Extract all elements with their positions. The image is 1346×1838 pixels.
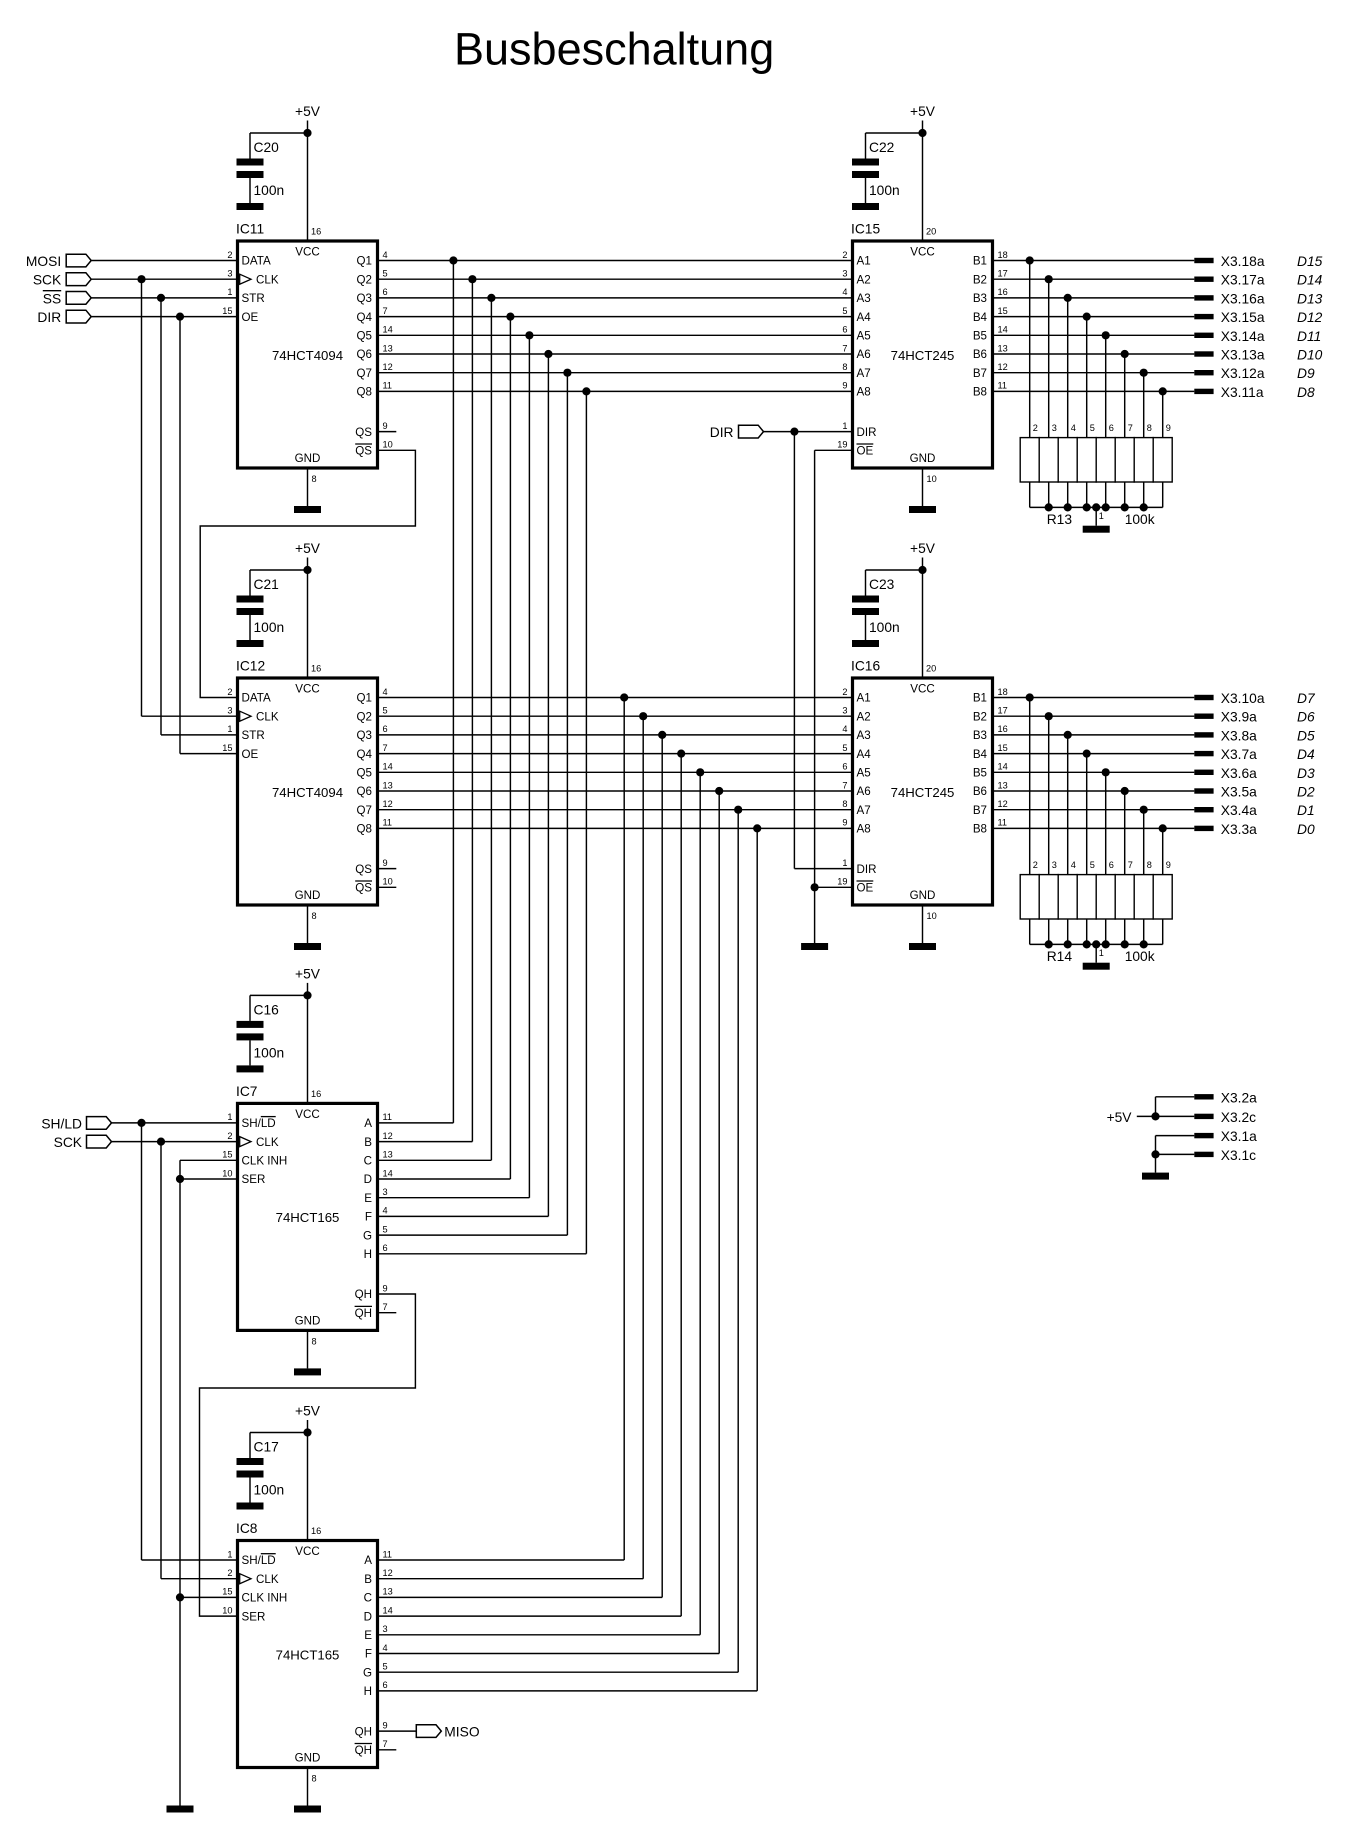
svg-text:11: 11 — [998, 381, 1008, 391]
svg-text:6: 6 — [383, 724, 388, 734]
svg-text:6: 6 — [383, 287, 388, 297]
svg-text:D6: D6 — [1297, 710, 1315, 725]
svg-text:+5V: +5V — [1107, 1110, 1133, 1125]
svg-text:QS: QS — [355, 426, 372, 439]
svg-text:X3.11a: X3.11a — [1221, 385, 1264, 400]
svg-text:X3.2a: X3.2a — [1221, 1090, 1257, 1105]
svg-text:SER: SER — [242, 1610, 266, 1623]
svg-text:Q8: Q8 — [357, 823, 372, 836]
svg-text:Q6: Q6 — [357, 785, 372, 798]
svg-text:B2: B2 — [973, 710, 987, 723]
svg-text:IC7: IC7 — [236, 1084, 257, 1099]
svg-text:QS: QS — [355, 863, 372, 876]
svg-text:1: 1 — [227, 1549, 232, 1559]
svg-text:SCK: SCK — [54, 1135, 83, 1150]
svg-text:Busbeschaltung: Busbeschaltung — [454, 24, 774, 75]
svg-text:B6: B6 — [973, 785, 987, 798]
svg-text:D: D — [364, 1173, 372, 1186]
svg-text:SER: SER — [242, 1173, 266, 1186]
svg-text:1: 1 — [227, 1112, 232, 1122]
svg-text:A7: A7 — [857, 367, 871, 380]
svg-text:F: F — [365, 1648, 372, 1661]
svg-text:OE: OE — [857, 882, 874, 895]
svg-text:8: 8 — [312, 1774, 317, 1784]
svg-text:15: 15 — [222, 743, 232, 753]
svg-text:B1: B1 — [973, 692, 987, 705]
svg-text:D9: D9 — [1297, 366, 1315, 381]
svg-text:D7: D7 — [1297, 691, 1316, 706]
svg-text:20: 20 — [926, 664, 936, 674]
svg-text:1: 1 — [842, 858, 847, 868]
svg-text:100n: 100n — [254, 620, 285, 635]
svg-text:OE: OE — [857, 445, 874, 458]
svg-text:X3.2c: X3.2c — [1221, 1110, 1256, 1125]
svg-text:13: 13 — [998, 780, 1008, 790]
svg-text:2: 2 — [227, 250, 232, 260]
svg-text:A4: A4 — [857, 748, 872, 761]
svg-text:12: 12 — [998, 362, 1008, 372]
svg-text:10: 10 — [927, 911, 937, 921]
svg-text:Q3: Q3 — [357, 292, 372, 305]
svg-text:G: G — [363, 1666, 372, 1679]
svg-text:C17: C17 — [254, 1440, 279, 1455]
svg-text:2: 2 — [227, 1568, 232, 1578]
svg-text:VCC: VCC — [910, 682, 934, 695]
svg-text:DATA: DATA — [242, 692, 271, 705]
svg-text:7: 7 — [842, 343, 847, 353]
svg-text:D4: D4 — [1297, 747, 1315, 762]
svg-text:4: 4 — [383, 1643, 388, 1653]
svg-text:10: 10 — [383, 440, 393, 450]
svg-text:QH: QH — [355, 1288, 372, 1301]
svg-text:X3.13a: X3.13a — [1221, 348, 1265, 363]
svg-text:STR: STR — [242, 729, 265, 742]
svg-text:VCC: VCC — [295, 245, 319, 258]
svg-text:5: 5 — [383, 269, 388, 279]
svg-text:QS: QS — [355, 445, 372, 458]
svg-text:9: 9 — [383, 1283, 388, 1293]
svg-text:X3.5a: X3.5a — [1221, 785, 1257, 800]
svg-text:CLK: CLK — [256, 1573, 279, 1586]
svg-text:D12: D12 — [1297, 310, 1323, 325]
svg-text:DIR: DIR — [857, 426, 877, 439]
svg-text:13: 13 — [383, 780, 393, 790]
svg-text:Q7: Q7 — [357, 367, 372, 380]
svg-text:Q6: Q6 — [357, 348, 372, 361]
svg-text:14: 14 — [998, 762, 1008, 772]
svg-text:Q5: Q5 — [357, 330, 372, 343]
svg-text:9: 9 — [1166, 423, 1171, 433]
svg-text:1: 1 — [227, 287, 232, 297]
svg-text:100k: 100k — [1125, 949, 1155, 964]
svg-text:A5: A5 — [857, 330, 871, 343]
svg-text:B8: B8 — [973, 823, 987, 836]
svg-text:+5V: +5V — [295, 966, 321, 981]
svg-text:3: 3 — [227, 706, 232, 716]
svg-text:E: E — [364, 1192, 372, 1205]
svg-text:A1: A1 — [857, 255, 871, 268]
svg-text:R13: R13 — [1047, 512, 1073, 527]
svg-text:2: 2 — [1033, 423, 1038, 433]
svg-text:A8: A8 — [857, 823, 871, 836]
svg-text:1: 1 — [1099, 948, 1104, 958]
svg-text:Q1: Q1 — [357, 255, 372, 268]
svg-text:15: 15 — [998, 743, 1008, 753]
svg-text:5: 5 — [383, 1224, 388, 1234]
svg-text:OE: OE — [242, 748, 259, 761]
svg-text:X3.1a: X3.1a — [1221, 1129, 1257, 1144]
svg-text:+5V: +5V — [295, 104, 321, 119]
svg-text:B4: B4 — [973, 748, 988, 761]
svg-text:C: C — [364, 1592, 372, 1605]
svg-text:IC15: IC15 — [851, 222, 880, 237]
svg-text:11: 11 — [383, 1549, 393, 1559]
svg-text:B3: B3 — [973, 729, 987, 742]
svg-text:A6: A6 — [857, 785, 871, 798]
svg-text:+5V: +5V — [910, 104, 936, 119]
svg-text:SH/LD: SH/LD — [242, 1554, 276, 1567]
svg-text:A8: A8 — [857, 386, 871, 399]
svg-text:9: 9 — [842, 381, 847, 391]
svg-text:X3.7a: X3.7a — [1221, 747, 1257, 762]
svg-text:20: 20 — [926, 227, 936, 237]
svg-text:CLK INH: CLK INH — [242, 1155, 288, 1168]
svg-text:MOSI: MOSI — [26, 254, 61, 269]
svg-text:DATA: DATA — [242, 255, 271, 268]
svg-text:A3: A3 — [857, 292, 871, 305]
svg-text:8: 8 — [312, 911, 317, 921]
svg-text:STR: STR — [242, 292, 265, 305]
svg-text:100n: 100n — [254, 1483, 285, 1498]
svg-text:6: 6 — [383, 1243, 388, 1253]
svg-text:Q7: Q7 — [357, 804, 372, 817]
svg-text:7: 7 — [383, 1739, 388, 1749]
svg-text:G: G — [363, 1229, 372, 1242]
svg-text:16: 16 — [998, 287, 1008, 297]
svg-text:X3.6a: X3.6a — [1221, 766, 1257, 781]
svg-text:3: 3 — [383, 1187, 388, 1197]
svg-text:2: 2 — [842, 687, 847, 697]
svg-text:1: 1 — [1099, 511, 1104, 521]
svg-text:Q4: Q4 — [357, 748, 373, 761]
svg-text:9: 9 — [383, 1720, 388, 1730]
svg-text:7: 7 — [383, 1302, 388, 1312]
svg-text:12: 12 — [998, 799, 1008, 809]
svg-text:16: 16 — [311, 227, 321, 237]
svg-text:8: 8 — [1147, 423, 1152, 433]
svg-text:18: 18 — [998, 687, 1008, 697]
svg-text:QH: QH — [355, 1307, 372, 1320]
svg-text:3: 3 — [1052, 423, 1057, 433]
svg-text:A5: A5 — [857, 767, 871, 780]
svg-text:11: 11 — [383, 1112, 393, 1122]
svg-text:CLK INH: CLK INH — [242, 1592, 288, 1605]
svg-text:8: 8 — [842, 799, 847, 809]
svg-text:D: D — [364, 1610, 372, 1623]
svg-text:SCK: SCK — [33, 273, 62, 288]
svg-text:D11: D11 — [1297, 329, 1321, 344]
svg-text:E: E — [364, 1629, 372, 1642]
svg-text:100n: 100n — [254, 1045, 285, 1060]
svg-text:+5V: +5V — [295, 1404, 321, 1419]
svg-text:B1: B1 — [973, 255, 987, 268]
svg-text:8: 8 — [312, 474, 317, 484]
svg-text:19: 19 — [837, 440, 847, 450]
svg-text:B5: B5 — [973, 330, 987, 343]
svg-text:VCC: VCC — [295, 1108, 319, 1121]
svg-text:100n: 100n — [254, 183, 285, 198]
svg-text:C22: C22 — [869, 140, 894, 155]
svg-text:Q8: Q8 — [357, 386, 372, 399]
svg-text:VCC: VCC — [295, 1545, 319, 1558]
svg-text:D10: D10 — [1297, 348, 1323, 363]
svg-text:8: 8 — [1147, 860, 1152, 870]
svg-text:74HCT165: 74HCT165 — [276, 1647, 340, 1662]
svg-text:B5: B5 — [973, 767, 987, 780]
svg-text:Q4: Q4 — [357, 311, 373, 324]
svg-text:VCC: VCC — [295, 682, 319, 695]
svg-text:10: 10 — [222, 1168, 232, 1178]
svg-text:7: 7 — [842, 780, 847, 790]
svg-text:X3.9a: X3.9a — [1221, 710, 1257, 725]
svg-text:3: 3 — [842, 706, 847, 716]
svg-text:5: 5 — [383, 1662, 388, 1672]
svg-text:16: 16 — [311, 1526, 321, 1536]
svg-text:100n: 100n — [869, 620, 900, 635]
svg-text:DIR: DIR — [37, 310, 61, 325]
svg-text:15: 15 — [222, 1587, 232, 1597]
svg-text:7: 7 — [1128, 860, 1133, 870]
svg-text:16: 16 — [311, 1089, 321, 1099]
svg-text:1: 1 — [227, 724, 232, 734]
svg-text:B: B — [364, 1136, 372, 1149]
svg-text:9: 9 — [1166, 860, 1171, 870]
svg-text:Q1: Q1 — [357, 692, 372, 705]
svg-text:5: 5 — [842, 743, 847, 753]
svg-text:GND: GND — [295, 1314, 321, 1327]
svg-text:X3.16a: X3.16a — [1221, 291, 1265, 306]
svg-text:Q2: Q2 — [357, 273, 372, 286]
svg-text:6: 6 — [1109, 860, 1114, 870]
svg-text:7: 7 — [1128, 423, 1133, 433]
svg-text:IC11: IC11 — [236, 222, 264, 237]
svg-text:X3.14a: X3.14a — [1221, 329, 1265, 344]
svg-text:A6: A6 — [857, 348, 871, 361]
svg-text:5: 5 — [842, 306, 847, 316]
svg-text:2: 2 — [842, 250, 847, 260]
svg-text:12: 12 — [383, 1131, 393, 1141]
svg-text:14: 14 — [998, 325, 1008, 335]
svg-text:MISO: MISO — [444, 1725, 480, 1740]
svg-text:Q5: Q5 — [357, 767, 372, 780]
svg-text:9: 9 — [383, 858, 388, 868]
svg-text:4: 4 — [842, 287, 847, 297]
svg-text:D1: D1 — [1297, 803, 1315, 818]
svg-text:8: 8 — [312, 1336, 317, 1346]
svg-text:QH: QH — [355, 1744, 372, 1757]
svg-text:1: 1 — [842, 421, 847, 431]
svg-text:14: 14 — [383, 1605, 393, 1615]
svg-text:C: C — [364, 1155, 372, 1168]
svg-text:CLK: CLK — [256, 710, 279, 723]
svg-text:F: F — [365, 1211, 372, 1224]
svg-text:CLK: CLK — [256, 273, 279, 286]
svg-text:DIR: DIR — [857, 863, 877, 876]
svg-text:+5V: +5V — [910, 541, 936, 556]
svg-text:C23: C23 — [869, 577, 895, 592]
svg-text:5: 5 — [1090, 860, 1095, 870]
svg-text:A3: A3 — [857, 729, 871, 742]
svg-text:GND: GND — [295, 889, 321, 902]
svg-text:X3.12a: X3.12a — [1221, 366, 1265, 381]
svg-text:B4: B4 — [973, 311, 988, 324]
svg-text:3: 3 — [1052, 860, 1057, 870]
svg-text:74HCT4094: 74HCT4094 — [272, 785, 343, 800]
svg-text:Q2: Q2 — [357, 710, 372, 723]
svg-text:11: 11 — [998, 818, 1008, 828]
svg-text:X3.15a: X3.15a — [1221, 310, 1265, 325]
svg-text:9: 9 — [383, 421, 388, 431]
svg-text:D14: D14 — [1297, 273, 1323, 288]
svg-text:B7: B7 — [973, 367, 987, 380]
svg-text:DIR: DIR — [710, 425, 734, 440]
svg-text:6: 6 — [1109, 423, 1114, 433]
svg-text:17: 17 — [998, 269, 1008, 279]
svg-text:A: A — [364, 1554, 372, 1567]
svg-text:B: B — [364, 1573, 372, 1586]
svg-text:D3: D3 — [1297, 766, 1315, 781]
svg-text:4: 4 — [383, 1206, 388, 1216]
svg-text:X3.18a: X3.18a — [1221, 254, 1265, 269]
svg-text:D13: D13 — [1297, 291, 1323, 306]
svg-text:5: 5 — [383, 706, 388, 716]
svg-text:A2: A2 — [857, 710, 871, 723]
svg-text:16: 16 — [311, 664, 321, 674]
svg-text:4: 4 — [842, 724, 847, 734]
svg-text:5: 5 — [1090, 423, 1095, 433]
svg-text:15: 15 — [998, 306, 1008, 316]
svg-text:15: 15 — [222, 306, 232, 316]
svg-text:2: 2 — [1033, 860, 1038, 870]
svg-text:3: 3 — [227, 269, 232, 279]
svg-text:11: 11 — [383, 818, 393, 828]
svg-text:74HCT165: 74HCT165 — [276, 1210, 340, 1225]
svg-text:D5: D5 — [1297, 728, 1315, 743]
svg-text:H: H — [364, 1248, 372, 1261]
svg-text:16: 16 — [998, 724, 1008, 734]
svg-text:7: 7 — [383, 743, 388, 753]
svg-text:4: 4 — [1071, 423, 1076, 433]
svg-text:7: 7 — [383, 306, 388, 316]
svg-text:VCC: VCC — [910, 245, 934, 258]
svg-text:19: 19 — [837, 877, 847, 887]
svg-text:B8: B8 — [973, 386, 987, 399]
svg-text:12: 12 — [383, 362, 393, 372]
svg-text:4: 4 — [383, 687, 388, 697]
svg-text:Q3: Q3 — [357, 729, 372, 742]
svg-text:3: 3 — [842, 269, 847, 279]
svg-text:X3.17a: X3.17a — [1221, 273, 1265, 288]
svg-text:6: 6 — [842, 762, 847, 772]
svg-text:4: 4 — [1071, 860, 1076, 870]
svg-text:6: 6 — [842, 325, 847, 335]
svg-text:13: 13 — [998, 343, 1008, 353]
svg-text:X3.10a: X3.10a — [1221, 691, 1265, 706]
svg-text:D0: D0 — [1297, 822, 1315, 837]
svg-text:R14: R14 — [1047, 949, 1073, 964]
svg-text:A2: A2 — [857, 273, 871, 286]
svg-text:SH/LD: SH/LD — [242, 1117, 276, 1130]
svg-text:+5V: +5V — [295, 541, 321, 556]
svg-text:X3.8a: X3.8a — [1221, 728, 1257, 743]
svg-text:10: 10 — [927, 474, 937, 484]
svg-text:X3.4a: X3.4a — [1221, 803, 1257, 818]
svg-text:15: 15 — [222, 1150, 232, 1160]
svg-text:13: 13 — [383, 343, 393, 353]
svg-text:18: 18 — [998, 250, 1008, 260]
svg-text:C21: C21 — [254, 577, 279, 592]
svg-text:D15: D15 — [1297, 254, 1323, 269]
svg-text:13: 13 — [383, 1150, 393, 1160]
svg-text:12: 12 — [383, 1568, 393, 1578]
svg-text:D2: D2 — [1297, 785, 1315, 800]
svg-text:CLK: CLK — [256, 1136, 279, 1149]
svg-text:B6: B6 — [973, 348, 987, 361]
svg-text:13: 13 — [383, 1587, 393, 1597]
svg-text:SH/LD: SH/LD — [41, 1116, 82, 1131]
svg-text:8: 8 — [842, 362, 847, 372]
svg-text:14: 14 — [383, 325, 393, 335]
svg-text:9: 9 — [842, 818, 847, 828]
svg-text:GND: GND — [910, 889, 936, 902]
svg-text:74HCT245: 74HCT245 — [891, 785, 955, 800]
svg-text:IC16: IC16 — [851, 659, 880, 674]
svg-text:2: 2 — [227, 1131, 232, 1141]
svg-text:100k: 100k — [1125, 512, 1155, 527]
svg-text:GND: GND — [295, 452, 321, 465]
svg-text:2: 2 — [227, 687, 232, 697]
svg-text:D8: D8 — [1297, 385, 1315, 400]
svg-text:A4: A4 — [857, 311, 872, 324]
svg-text:GND: GND — [295, 1752, 321, 1765]
svg-text:74HCT4094: 74HCT4094 — [272, 348, 343, 363]
svg-text:14: 14 — [383, 762, 393, 772]
svg-text:IC8: IC8 — [236, 1521, 258, 1536]
svg-text:X3.3a: X3.3a — [1221, 822, 1257, 837]
svg-text:QS: QS — [355, 882, 372, 895]
svg-text:14: 14 — [383, 1168, 393, 1178]
svg-text:A1: A1 — [857, 692, 871, 705]
svg-text:IC12: IC12 — [236, 659, 265, 674]
svg-text:B2: B2 — [973, 273, 987, 286]
svg-text:X3.1c: X3.1c — [1221, 1148, 1256, 1163]
svg-text:A7: A7 — [857, 804, 871, 817]
svg-text:QH: QH — [355, 1725, 372, 1738]
svg-text:11: 11 — [383, 381, 393, 391]
svg-text:4: 4 — [383, 250, 388, 260]
svg-text:C16: C16 — [254, 1002, 280, 1017]
svg-text:OE: OE — [242, 311, 259, 324]
svg-text:A: A — [364, 1117, 372, 1130]
svg-text:B3: B3 — [973, 292, 987, 305]
svg-text:6: 6 — [383, 1680, 388, 1690]
svg-text:10: 10 — [222, 1605, 232, 1615]
svg-text:17: 17 — [998, 706, 1008, 716]
svg-text:B7: B7 — [973, 804, 987, 817]
svg-text:GND: GND — [910, 452, 936, 465]
svg-text:3: 3 — [383, 1624, 388, 1634]
svg-text:100n: 100n — [869, 183, 900, 198]
